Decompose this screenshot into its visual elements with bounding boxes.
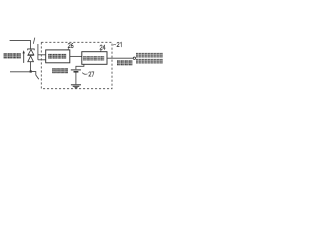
label 検知電圧 (input voltage) bbox=[4, 53, 21, 58]
wire top input line bbox=[10, 41, 31, 49]
label 26 with leader bbox=[68, 48, 69, 50]
wire feed into divider bbox=[37, 44, 39, 60]
zener diode D1 bbox=[28, 49, 35, 55]
label 基準電圧 reference voltage bbox=[52, 68, 68, 73]
dashed box detection circuit 21 bbox=[41, 42, 112, 88]
wire comparator output bbox=[107, 57, 133, 59]
battery 27 reference source bbox=[71, 69, 81, 71]
arrow up beside input label bbox=[23, 53, 25, 63]
tick label above wire bbox=[33, 38, 35, 44]
label 21 with leader bbox=[113, 43, 116, 46]
ground symbol bbox=[71, 85, 81, 88]
label 27 with leader bbox=[82, 73, 87, 75]
wire divider to comparator bbox=[70, 55, 82, 57]
label to second control circuit 25 bbox=[136, 59, 163, 64]
block コンパレータ comparator 24 bbox=[82, 52, 107, 65]
terminal circle output bbox=[133, 57, 135, 59]
node junction dot bbox=[30, 70, 32, 72]
label to first control circuit 23 bbox=[136, 53, 163, 58]
wire zener to junction bbox=[30, 62, 32, 72]
diode D2 bbox=[27, 55, 33, 61]
label 24 with leader bbox=[100, 50, 101, 52]
wire stub input 2 bbox=[38, 59, 46, 61]
label 検出出力 detection output bbox=[117, 60, 132, 65]
wire battery to ground bbox=[75, 73, 77, 85]
wire comparator to battery bbox=[76, 64, 84, 69]
wire branch to lower right with tail bbox=[31, 72, 39, 80]
block 分圧回路 voltage divider 26 bbox=[46, 50, 70, 63]
wire stub input 1 bbox=[38, 54, 46, 56]
wire bottom input line bbox=[10, 71, 31, 73]
